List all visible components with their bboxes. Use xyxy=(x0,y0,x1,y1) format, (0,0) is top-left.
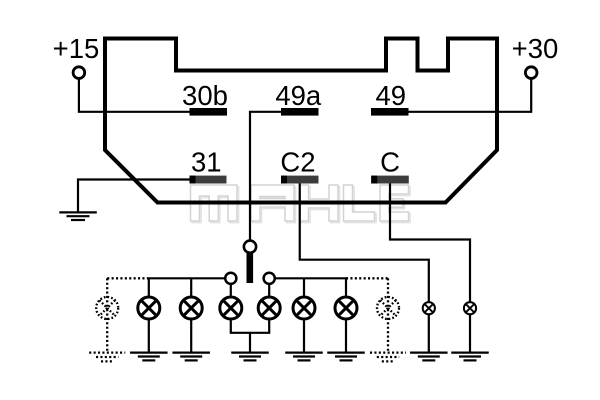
lamp L4 xyxy=(258,297,280,319)
MAHLE watermark xyxy=(191,185,411,223)
ground G9 (lamp L8) xyxy=(451,353,489,361)
svg-text:+15: +15 xyxy=(53,33,100,64)
lamp L6 xyxy=(335,297,357,319)
pin 49a xyxy=(281,108,319,116)
ground G5 (lamp L5) xyxy=(285,353,323,361)
svg-text:30b: 30b xyxy=(182,80,228,111)
dotted ground G6 (lamp L9) xyxy=(370,353,406,362)
svg-text:C: C xyxy=(380,146,400,177)
wire drop to lamp L6 xyxy=(345,278,347,297)
pin 30b xyxy=(190,108,228,116)
lamp L2 xyxy=(180,297,202,319)
dotted optional lamp L0 branch wire xyxy=(107,278,149,351)
terminal +15 xyxy=(73,67,85,79)
lamp L8 (small) xyxy=(464,302,476,314)
wire lamp L8 to ground xyxy=(469,314,471,352)
wire lamp L1 to ground xyxy=(148,319,150,353)
ground G4 (lamps L3 L4) xyxy=(231,353,269,361)
switch S lever xyxy=(247,252,254,283)
pin 31 xyxy=(190,176,227,184)
dotted optional lamp L9 branch wire xyxy=(346,278,388,351)
ground G8 (lamp L7) xyxy=(410,353,448,361)
switch S contact circle left xyxy=(225,273,236,284)
ground G2 (lamp L1) xyxy=(130,353,168,361)
wire lamp L6 to ground xyxy=(345,319,347,353)
svg-text:31: 31 xyxy=(191,146,222,177)
switch S pivot circle xyxy=(244,241,256,253)
dotted optional lamp L9 xyxy=(377,297,399,319)
wire drop to lamp L4 xyxy=(268,283,270,297)
wire +15 to pin 30b xyxy=(79,79,190,112)
lamp L1 xyxy=(138,297,160,319)
svg-text:C2: C2 xyxy=(280,146,315,177)
svg-text:+30: +30 xyxy=(512,33,559,64)
wire lamp L7 to ground xyxy=(428,314,430,352)
dotted ground G1 (lamp L0) xyxy=(89,353,125,362)
svg-text:49a: 49a xyxy=(275,80,322,111)
dotted optional lamp L0 xyxy=(96,297,118,319)
lamp L5 xyxy=(293,297,315,319)
pin 49 xyxy=(371,108,409,116)
wire +30 to pin 49 xyxy=(409,79,532,112)
lamp L7 (small) xyxy=(423,302,435,314)
terminal +30 xyxy=(525,67,537,79)
relay housing outline xyxy=(105,39,497,203)
wire drop to lamp L5 xyxy=(303,278,305,297)
wire drop to lamp L1 xyxy=(148,278,150,297)
wire drop to lamp L2 xyxy=(190,278,192,297)
wire lamp L5 to ground xyxy=(303,319,305,353)
wire pin C to lamp L8 xyxy=(390,184,470,303)
wire lamp L2 to ground xyxy=(190,319,192,353)
wire pin 31 to ground xyxy=(78,180,190,212)
wire right lamp bus xyxy=(269,277,346,279)
wire pin C2 to lamp L7 xyxy=(300,184,429,303)
pin C2 xyxy=(281,176,319,184)
svg-text:49: 49 xyxy=(376,80,407,111)
lamp L3 xyxy=(220,297,242,319)
wire lamps L3 L4 to shared ground xyxy=(231,319,269,353)
ground G3 (lamp L2) xyxy=(172,353,210,361)
ground G7 (lamp L6) xyxy=(327,353,365,361)
switch S contact circle right xyxy=(264,273,275,284)
wire left lamp bus xyxy=(149,277,231,279)
wire drop to lamp L3 xyxy=(230,283,232,297)
wire pin 49a to switch xyxy=(250,112,281,241)
pin C xyxy=(371,176,409,184)
ground G0 (pin 31) xyxy=(59,212,97,220)
